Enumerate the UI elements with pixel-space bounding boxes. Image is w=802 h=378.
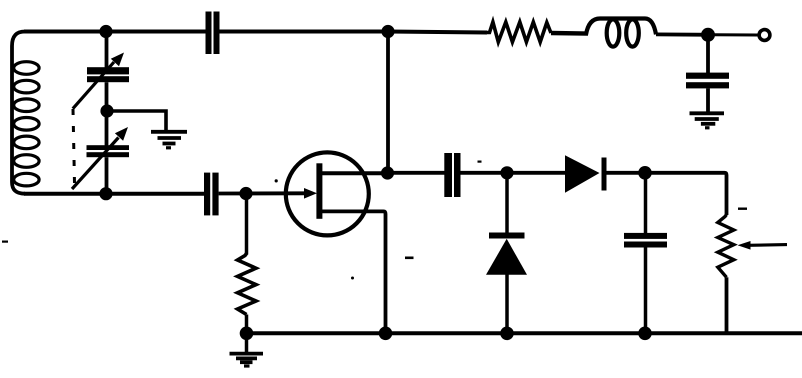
ground rail (bottom) [246, 331, 802, 335]
wire: filter node down to capacitor C5 [644, 173, 648, 234]
potentiometer R3 (volume control) [718, 215, 734, 278]
variable capacitor VC2 (plates) [87, 145, 130, 157]
capacitor C4 (detector coupling) [444, 153, 460, 197]
wire: tank bottom to capacitor C3 [24, 192, 204, 196]
capacitor C2 (output bypass) [686, 73, 729, 89]
wire: filter node right and down to potentiometer R3 [645, 173, 727, 215]
wire: R2 bottom to rail node [245, 315, 249, 335]
capacitor C3 (gate coupling) [204, 173, 219, 216]
wire: gate node down to resistor R2 [245, 194, 249, 255]
wire: D1 cathode to filter node [607, 171, 647, 175]
output terminal [759, 30, 770, 41]
node: output / bypass junction [701, 28, 715, 42]
wire top middle from C1 to resistor R1 [220, 32, 488, 33]
wire: R3 bottom to rail [725, 277, 729, 334]
wire: anode node down to diode D2 [505, 173, 509, 233]
inductor L2 (RF choke) [586, 19, 656, 47]
node: filter junction [638, 166, 652, 180]
transistor Q1 channel bar [316, 163, 322, 219]
node: junction between VC1 and VC2 [100, 104, 113, 117]
node: source to rail junction [379, 327, 393, 341]
capacitor C1 (antenna coupling, top) [206, 12, 220, 55]
wire: output node down to capacitor C2 [706, 35, 710, 73]
wire: C3 to gate [219, 191, 305, 195]
wire: varcap vertical middle [105, 82, 109, 112]
wire: varcap vertical bottom [105, 157, 109, 194]
wire: rail node down to chassis ground [245, 333, 249, 354]
variable capacitor VC1 arrow [73, 53, 124, 109]
node: coil top / tuning caps junction [99, 25, 112, 38]
node: C5 to rail junction [638, 327, 652, 341]
node: coil bottom junction [99, 187, 112, 200]
wire: varcap vertical lower [105, 111, 109, 146]
transistor Q1 gate arrow [304, 188, 317, 199]
wire to output terminal [714, 33, 758, 36]
gang dashed link between VC1 and VC2 [73, 109, 75, 183]
tank coil L1 [12, 32, 39, 194]
node: D2 to rail junction [500, 327, 514, 341]
resistor R2 (gate leak) [238, 254, 257, 315]
capacitor C5 (RF filter) [624, 233, 667, 248]
wire: C2 to ground [706, 88, 710, 114]
transistor Q1 source lead [322, 211, 386, 333]
transistor Q1 body circle [286, 152, 369, 235]
ground (output bypass) [690, 113, 725, 128]
node: rail left / ground junction [240, 327, 254, 341]
variable capacitor VC1 (plates) [87, 67, 129, 82]
potentiometer R3 wiper arrow [738, 241, 788, 250]
wire: C5 to rail [644, 248, 648, 335]
wire: varcap vertical upper [105, 32, 109, 69]
node: gate junction [239, 187, 252, 200]
wire top-left from coil to capacitor C1 [24, 30, 206, 34]
wire: stub to ground from varcap junction [107, 111, 166, 132]
wire: drain node to capacitor C4 [388, 171, 445, 175]
wire from choke to output node [656, 33, 714, 37]
diode D1 (series detector) [565, 155, 607, 192]
ground (tank mid ground) [151, 132, 187, 148]
ground (chassis, bottom) [230, 354, 264, 366]
wire: D2 to rail [505, 275, 509, 335]
wire: vertical from top wire down to drain node [386, 32, 390, 174]
diode D2 (shunt, pointing up) [486, 233, 527, 275]
transistor Q1 drain lead [322, 171, 383, 175]
node: diode anode junction [500, 166, 513, 179]
variable capacitor VC2 arrow [72, 127, 128, 189]
node: drain junction [381, 166, 394, 179]
resistor R1 (top) [487, 22, 551, 42]
speck noise [2, 161, 747, 280]
wire: C4 to diode D1 [461, 171, 567, 175]
node: top wire / drain feed junction [381, 25, 394, 38]
wire between R1 and choke L2 [551, 31, 588, 36]
